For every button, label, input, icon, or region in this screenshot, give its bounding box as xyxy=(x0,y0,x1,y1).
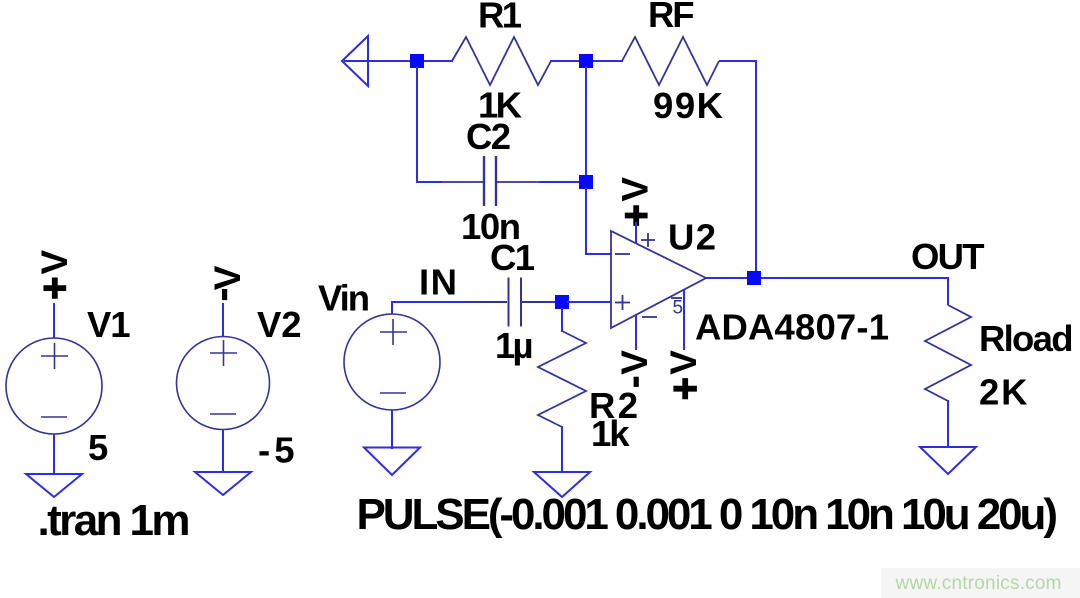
svg-text:PULSE(-0.001 0.001 0 10n 10n 1: PULSE(-0.001 0.001 0 10n 10n 10u 20u) xyxy=(357,490,1059,539)
wire V1 top xyxy=(53,303,55,338)
svg-text:5: 5 xyxy=(673,298,684,319)
svg-text:1k: 1k xyxy=(591,413,630,454)
node label -V (V2 top, rotated) xyxy=(207,265,248,300)
wire J4 to non-inverting input xyxy=(567,301,611,303)
svg-text:C1: C1 xyxy=(490,237,535,278)
svg-text:R1: R1 xyxy=(478,0,522,36)
wire J2 to RF xyxy=(591,60,623,62)
node label -V (op-amp bottom, rotated) xyxy=(614,350,655,387)
node junction J2 (R1/RF/C2 column) xyxy=(579,54,593,68)
voltage source V1 xyxy=(6,338,102,434)
svg-text:V2: V2 xyxy=(257,304,302,345)
ground (R2) xyxy=(534,472,590,497)
svg-text:Rload: Rload xyxy=(979,318,1074,359)
wire J2 down to J3 xyxy=(585,66,587,178)
svg-text:-5: -5 xyxy=(258,430,295,471)
wire op-amp V- pin xyxy=(635,314,637,350)
svg-text:V: V xyxy=(615,177,656,202)
ground (V2) xyxy=(195,472,251,495)
wire V2 top xyxy=(222,303,224,337)
wire C1 to node J4 xyxy=(550,301,557,303)
svg-text:2K: 2K xyxy=(979,372,1028,413)
svg-text:IN: IN xyxy=(419,262,457,303)
svg-text:V: V xyxy=(663,350,704,375)
wire OUT net xyxy=(761,278,948,305)
wire J1 down to C2 xyxy=(417,66,442,182)
node label +V (enable pin, rotated) xyxy=(663,350,704,400)
svg-text:.tran 1m: .tran 1m xyxy=(38,496,191,545)
wire op-amp enable pin xyxy=(683,289,685,350)
svg-text:5: 5 xyxy=(88,427,108,468)
node junction J1 xyxy=(410,54,424,68)
watermark band xyxy=(881,568,1080,598)
wire R2 to ground xyxy=(561,426,563,472)
wire op-amp output to node J5 xyxy=(706,277,750,279)
svg-text:www.cntronics.com: www.cntronics.com xyxy=(895,573,1062,594)
wire C2 to node J3 xyxy=(539,181,580,183)
resistor R2 xyxy=(538,331,586,427)
node label +V (V1 top, rotated) xyxy=(34,250,75,299)
ground (rotated, left of R1) xyxy=(342,36,368,86)
node junction J5 (output) xyxy=(747,271,761,285)
wire J4 down to R2 xyxy=(561,307,563,332)
wire Vin top / IN net xyxy=(392,302,466,314)
op-amp U2 xyxy=(611,231,706,328)
wire ground to node J1 xyxy=(344,60,412,62)
wire J1 to R1 xyxy=(422,60,453,62)
node junction J3 (C2 right / feedback) xyxy=(579,175,593,189)
capacitor C1 xyxy=(466,278,550,327)
svg-text:RF: RF xyxy=(648,0,695,35)
svg-text:V1: V1 xyxy=(87,304,131,345)
capacitor C2 xyxy=(484,156,496,206)
svg-text:OUT: OUT xyxy=(911,236,985,277)
voltage source Vin xyxy=(344,314,440,410)
wire Vin bottom xyxy=(391,410,393,449)
wire J3 down to inverting input xyxy=(586,187,611,254)
svg-text:V: V xyxy=(614,350,655,375)
svg-text:99K: 99K xyxy=(653,85,724,126)
wire RF right side down to output node xyxy=(719,61,756,278)
resistor R1 xyxy=(452,37,551,85)
node label +V (op-amp top, rotated) xyxy=(615,177,656,226)
wire V1 bottom xyxy=(53,434,55,474)
svg-text:1µ: 1µ xyxy=(495,325,534,366)
svg-text:Vin: Vin xyxy=(318,278,370,319)
ground (Rload) xyxy=(920,447,976,474)
svg-text:C2: C2 xyxy=(466,116,511,157)
ground (Vin) xyxy=(364,448,420,476)
svg-text:U2: U2 xyxy=(668,217,716,258)
wire R1 to J2 xyxy=(550,60,581,62)
wire Rload to ground xyxy=(947,400,949,447)
svg-text:ADA4807-1: ADA4807-1 xyxy=(695,307,889,348)
wire op-amp V+ pin xyxy=(635,222,637,243)
resistor RF xyxy=(622,37,719,85)
wire V2 bottom xyxy=(222,429,224,472)
svg-text:V: V xyxy=(207,265,248,290)
node junction J4 (IN+ / R2) xyxy=(555,295,569,309)
resistor Rload xyxy=(925,305,971,401)
capacitor C2 right lead xyxy=(496,181,539,183)
svg-text:V: V xyxy=(34,250,75,275)
capacitor C2 left lead xyxy=(441,181,483,183)
voltage source V2 xyxy=(177,337,270,430)
ground (V1) xyxy=(26,474,82,497)
